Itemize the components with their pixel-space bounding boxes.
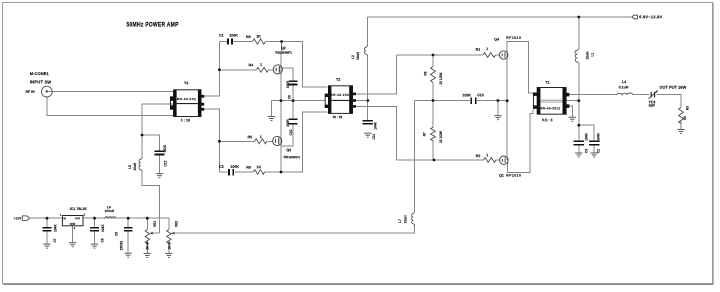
svg-text:L1: L1: [590, 53, 594, 57]
svg-text:T1: T1: [545, 81, 549, 85]
svg-text:4t : 6t: 4t : 6t: [333, 115, 343, 119]
svg-text:C12: C12: [163, 160, 167, 166]
svg-text:C6: C6: [101, 238, 105, 242]
svg-text:L2: L2: [351, 55, 355, 59]
svg-text:RD16HHF1: RD16HHF1: [275, 51, 292, 55]
svg-text:RF1510: RF1510: [506, 36, 521, 40]
svg-text:R1: R1: [476, 48, 481, 52]
svg-text:1K-B: 1K-B: [167, 241, 171, 249]
svg-text:T3: T3: [184, 81, 188, 85]
svg-text:1: 1: [486, 47, 488, 51]
svg-text:IN: IN: [63, 216, 66, 220]
svg-text:Q2: Q2: [281, 46, 286, 50]
svg-text:6.9V~13.8V: 6.9V~13.8V: [639, 14, 662, 19]
svg-text:R3: R3: [686, 106, 690, 110]
svg-text:1K: 1K: [256, 35, 261, 39]
svg-text:BN-43-202: BN-43-202: [177, 97, 196, 101]
svg-text:0.5 : 3: 0.5 : 3: [542, 118, 552, 122]
svg-text:100K: 100K: [229, 34, 238, 38]
svg-text:22 1/2W: 22 1/2W: [439, 131, 443, 143]
svg-text:103K: 103K: [462, 93, 471, 97]
svg-text:C3: C3: [219, 165, 224, 169]
svg-text:R8: R8: [246, 35, 251, 39]
svg-text:C11: C11: [372, 134, 376, 140]
svg-text:L4: L4: [622, 80, 626, 84]
svg-text:1: 1: [486, 153, 488, 157]
svg-text:BN-43-3312: BN-43-3312: [540, 106, 560, 110]
svg-text:100uH: 100uH: [105, 209, 115, 213]
svg-text:1: 1: [260, 63, 262, 67]
svg-text:1 : 16: 1 : 16: [181, 118, 190, 122]
svg-text:Q3: Q3: [286, 148, 291, 152]
svg-text:104K: 104K: [101, 224, 105, 232]
svg-text:1: 1: [260, 135, 262, 139]
svg-text:BN-43-202: BN-43-202: [330, 93, 349, 97]
svg-text:M-CONE1: M-CONE1: [30, 71, 50, 76]
svg-text:C5: C5: [115, 232, 119, 236]
svg-text:Q1: Q1: [499, 174, 504, 178]
svg-text:INPUT 5W: INPUT 5W: [30, 79, 52, 84]
svg-text:10uH: 10uH: [586, 51, 590, 59]
svg-text:10uH: 10uH: [133, 162, 137, 170]
svg-text:RD16HHF1: RD16HHF1: [284, 155, 301, 159]
svg-text:R9: R9: [246, 166, 251, 170]
svg-text:RF1510: RF1510: [506, 174, 521, 178]
svg-text:102K: 102K: [163, 144, 167, 152]
svg-text:C9: C9: [288, 95, 292, 99]
svg-text:C13: C13: [477, 93, 484, 97]
svg-text:5K-B: 5K-B: [146, 241, 150, 249]
svg-text:OUT: OUT: [75, 216, 81, 220]
svg-text:L7: L7: [398, 219, 402, 223]
svg-text:L5: L5: [128, 165, 132, 169]
svg-text:50: 50: [683, 116, 687, 120]
svg-text:50MHz POWER AMP: 50MHz POWER AMP: [127, 22, 179, 29]
svg-text:T2: T2: [336, 78, 340, 82]
svg-text:104K: 104K: [373, 121, 377, 129]
svg-text:IC1 78L05: IC1 78L05: [70, 207, 87, 211]
svg-text:330P: 330P: [286, 80, 290, 88]
svg-text:VR2: VR2: [175, 221, 179, 227]
svg-text:C10: C10: [289, 129, 293, 135]
svg-text:C7: C7: [53, 238, 57, 242]
svg-text:R7: R7: [422, 132, 426, 136]
svg-text:10uH: 10uH: [356, 52, 360, 60]
svg-text:C2: C2: [597, 149, 601, 153]
svg-text:C4: C4: [584, 149, 588, 153]
svg-text:100K: 100K: [230, 165, 239, 169]
svg-text:Q4: Q4: [494, 38, 499, 42]
svg-text:+12V: +12V: [14, 216, 23, 220]
svg-text:104K: 104K: [54, 224, 58, 232]
svg-text:0.1uH: 0.1uH: [619, 85, 629, 89]
svg-text:104K: 104K: [597, 132, 601, 140]
svg-text:330P: 330P: [286, 118, 290, 126]
svg-text:RF IN: RF IN: [25, 90, 35, 94]
svg-text:R5: R5: [247, 135, 252, 139]
svg-text:VR1: VR1: [153, 221, 157, 227]
svg-text:R2: R2: [476, 154, 481, 158]
svg-text:C1: C1: [219, 34, 224, 38]
svg-text:25V33: 25V33: [119, 241, 123, 250]
svg-text:GND: GND: [70, 222, 76, 226]
svg-text:OUT PUT 16W: OUT PUT 16W: [659, 85, 686, 90]
svg-text:104K: 104K: [584, 132, 588, 140]
svg-text:22 1/2W: 22 1/2W: [439, 73, 443, 85]
svg-text:R6: R6: [423, 71, 427, 75]
svg-text:1K: 1K: [257, 165, 262, 169]
svg-text:R4: R4: [248, 63, 253, 67]
svg-text:50P: 50P: [649, 104, 656, 108]
svg-text:10uH: 10uH: [403, 215, 407, 223]
